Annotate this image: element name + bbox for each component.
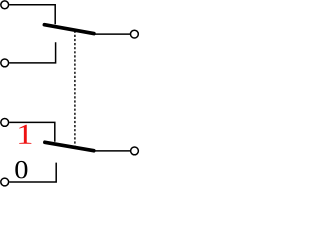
terminal circle T1: pole-1 upper-left (1, 1, 9, 9)
terminal circle T6: pole-2 common (right) (131, 147, 139, 155)
wire W3: blade to pole-1 common right terminal (94, 33, 130, 35)
switch blade S1a (pole 1 moving contact) (44, 25, 94, 34)
label "1" (red, position 1) (19, 125, 31, 144)
switch blade S1b (pole 2 moving contact) (45, 142, 94, 150)
mechanical linkage (dashed gang line) (74, 31, 76, 146)
wire W1: pole-1 upper-left terminal to upper fixed contact (9, 5, 55, 25)
label "0" (position 0) (15, 161, 27, 178)
terminal circle T4: pole-2 upper-left ("1") (1, 119, 9, 127)
wire W4: pole-2 "1" terminal to fixed contact (9, 122, 55, 141)
wire W5: pole-2 "0" terminal to fixed contact (9, 163, 56, 182)
terminal circle T5: pole-2 lower-left ("0") (1, 178, 9, 186)
terminal circle T2: pole-1 lower-left (1, 59, 9, 67)
wire W6: blade to pole-2 common right terminal (94, 150, 131, 152)
terminal circle T3: pole-1 common (right) (131, 30, 139, 38)
wire W2: pole-1 lower-left terminal to lower fixed contact (9, 42, 55, 63)
